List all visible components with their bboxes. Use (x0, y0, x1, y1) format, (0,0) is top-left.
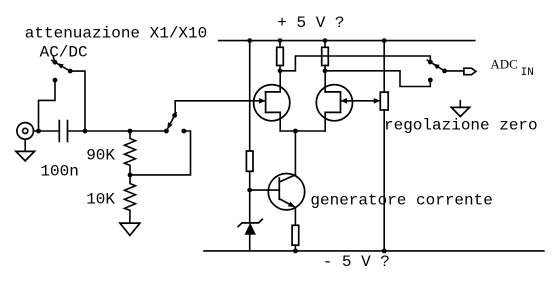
wire X10 contact to divider tap (130, 131, 191, 175)
wire left drain resistor to drain node (279, 66, 281, 71)
resistor R4 left drain (277, 47, 284, 65)
transistor Q3 BJT current generator (268, 174, 304, 210)
wire Q3 emitter to emitter resistor (294, 207, 296, 225)
trimmer wiper arrow (374, 98, 381, 104)
wire emitter resistor to -5V rail (294, 245, 296, 251)
ground (regolazione zero reference) (451, 101, 469, 117)
wire right rail to right drain resistor (324, 41, 326, 48)
switch S1 AC/DC lever (52, 57, 70, 71)
node AC/DC switch upper contact (53, 60, 58, 65)
svg-text:+ 5 V ?: + 5 V ? (277, 14, 344, 32)
wire DC-bypass from pre-cap node to switch contact (39, 80, 56, 131)
wire base node to Q3 base (250, 189, 280, 191)
node pre-capacitor junction (36, 129, 41, 134)
svg-text:attenuazione X1/X10: attenuazione X1/X10 (25, 25, 207, 43)
node attenuation switch right contact (X10) (181, 129, 186, 134)
wire sources join (280, 130, 325, 132)
svg-text:- 5 V ?: - 5 V ? (323, 253, 390, 271)
wire -5V bottom rail (204, 250, 544, 252)
node AC/DC switch lower contact (53, 78, 58, 83)
wire rail to bias resistor (249, 41, 251, 151)
capacitor C1 100n (59, 121, 67, 142)
svg-text:90K: 90K (86, 147, 115, 165)
node rail / bias chain (247, 38, 252, 43)
wire X1 contact to Q1 gate (175, 101, 266, 116)
node post-capacitor junction (83, 129, 88, 134)
wire bias resistor to base node (249, 171, 251, 190)
node ADC switch upper contact (428, 60, 433, 65)
diode D1 zener (238, 219, 262, 234)
svg-text:generatore corrente: generatore corrente (310, 192, 492, 210)
node left drain junction (278, 68, 283, 73)
transistor Q2 JFET right (316, 71, 352, 131)
wire base node to zener (249, 190, 251, 223)
node AC/DC switch pole (68, 69, 73, 74)
resistor R6 emitter (292, 225, 299, 245)
switch S3 ADC select lever (427, 60, 444, 71)
wire rail to left drain resistor (279, 41, 281, 48)
ground (below 10K) (120, 223, 140, 235)
wire right drain node to ADC switch lower contact (325, 71, 430, 87)
node attenuation switch pole (164, 129, 169, 134)
wire BNC to capacitor (34, 130, 60, 132)
node attenuation switch upper contact (X1) (172, 113, 177, 118)
node sources junction (293, 129, 298, 134)
node rail / emitter resistor (293, 249, 298, 254)
svg-text:100n: 100n (40, 163, 78, 181)
resistor R3 bias (246, 151, 253, 171)
node base node (247, 188, 252, 193)
switch S2 attenuation lever (166, 113, 176, 131)
connector ADC_IN flag (464, 68, 476, 75)
node ADC switch pole (442, 69, 447, 74)
potentiometer RV1 regolazione zero (380, 41, 388, 251)
resistor R2 10K (125, 175, 136, 223)
svg-text:AC/DC: AC/DC (40, 44, 88, 62)
resistor R5 right drain (322, 47, 329, 65)
wire zener to -5V rail (249, 234, 251, 251)
node signal node at 90K top (128, 129, 133, 134)
node rail / left drain resistor (278, 38, 283, 43)
wire pole to ADC_IN connector (445, 70, 464, 72)
svg-text:regolazione zero: regolazione zero (384, 117, 538, 135)
wire right drain resistor to drain node (324, 66, 326, 71)
wire +5V top rail (219, 40, 475, 42)
transistor Q1 JFET left (254, 71, 290, 131)
node rail / trimmer (382, 38, 387, 43)
wire Q2 gate to trimmer wiper (341, 100, 381, 102)
svg-text:10K: 10K (86, 191, 115, 209)
node ADC switch lower contact (428, 78, 433, 83)
node divider tap (128, 173, 133, 178)
connector J1 BNC input (17, 123, 34, 140)
ground (BNC shell) (16, 139, 35, 161)
svg-text:ADC: ADC (490, 57, 517, 72)
node rail / trimmer bottom (382, 249, 387, 254)
wire AC/DC switch pole to post-cap node (70, 71, 85, 131)
node rail / right drain resistor (323, 38, 328, 43)
wire sources to Q3 collector (294, 131, 296, 175)
wire capacitor to attenuation switch pole (68, 130, 167, 132)
svg-text:IN: IN (521, 67, 534, 79)
resistor R1 90K (125, 131, 136, 175)
wire left drain node to ADC switch upper contact (280, 56, 430, 71)
node right drain junction (323, 68, 328, 73)
